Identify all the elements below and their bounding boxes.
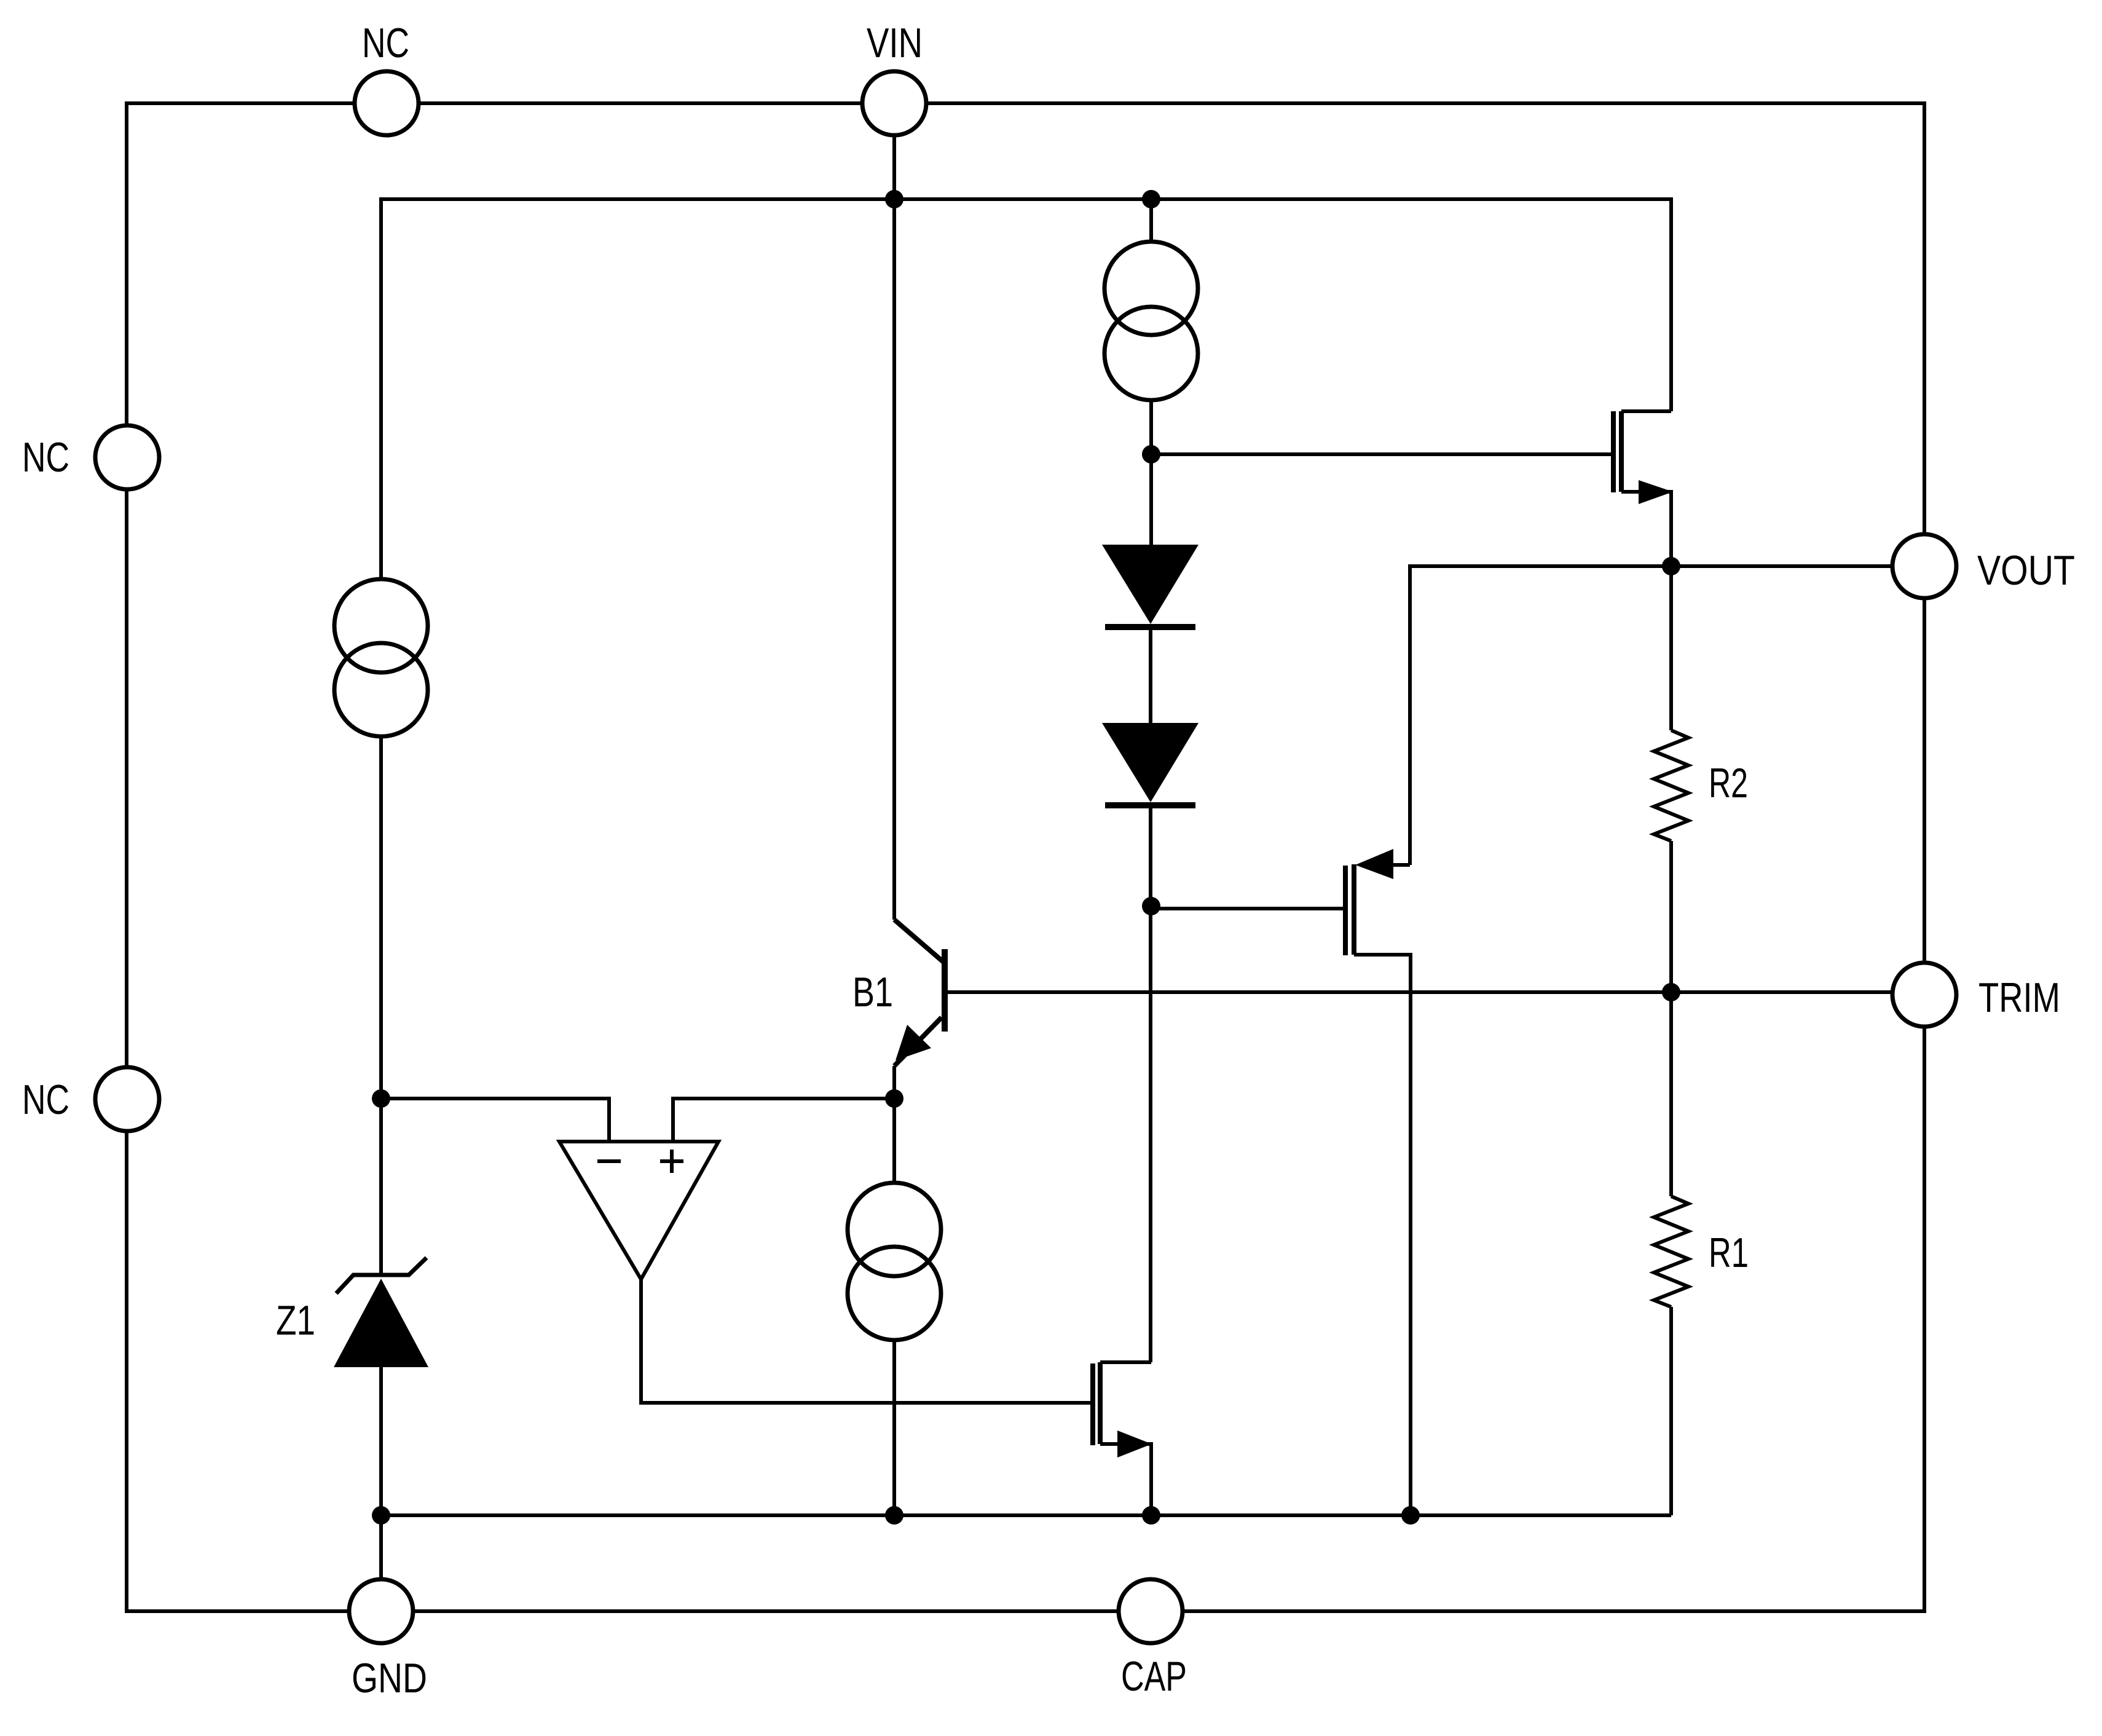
svg-text:VIN: VIN	[867, 20, 923, 66]
svg-text:GND: GND	[352, 1655, 427, 1702]
svg-text:NC: NC	[362, 20, 409, 66]
svg-text:NC: NC	[22, 434, 69, 481]
svg-text:Z1: Z1	[276, 1297, 315, 1344]
svg-text:B1: B1	[852, 969, 893, 1016]
svg-text:R1: R1	[1709, 1229, 1749, 1276]
svg-text:CAP: CAP	[1121, 1653, 1187, 1700]
svg-text:VOUT: VOUT	[1977, 547, 2075, 594]
svg-text:NC: NC	[22, 1076, 69, 1123]
svg-text:TRIM: TRIM	[1978, 974, 2060, 1021]
svg-text:R2: R2	[1709, 760, 1748, 807]
